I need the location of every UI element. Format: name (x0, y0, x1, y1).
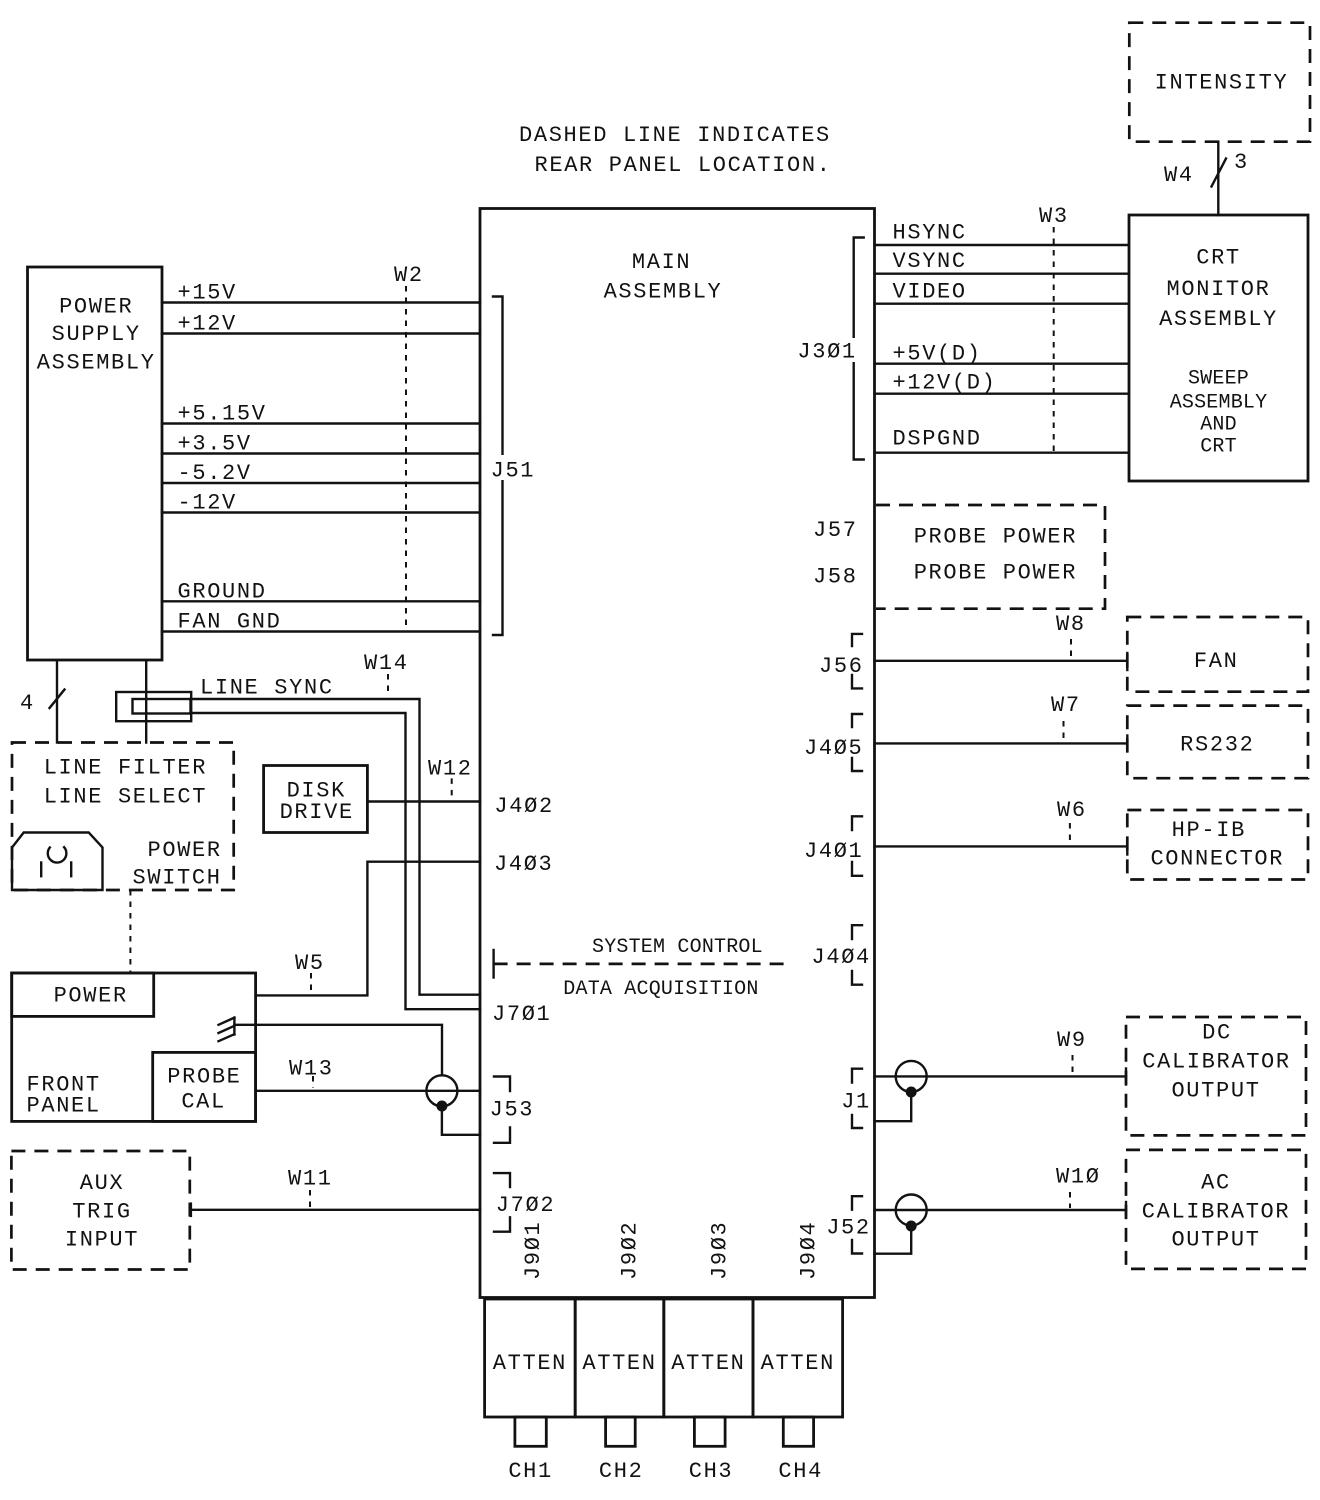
wire W4 intensity to CRT (1164, 142, 1249, 215)
wire: front panel power to J403 (256, 852, 554, 996)
disk drive (264, 766, 368, 833)
svg-text:PROBE POWER: PROBE POWER (914, 561, 1077, 586)
aux trig input (rear panel, dashed) (11, 1151, 189, 1270)
svg-text:DRIVE: DRIVE (280, 800, 354, 825)
svg-text:VIDEO: VIDEO (893, 280, 967, 305)
wire: shield to J53 connector (234, 1025, 442, 1076)
wire line sync bottom: to J701 (191, 713, 481, 1009)
connector J404 (812, 925, 871, 985)
svg-text:HSYNC: HSYNC (893, 221, 967, 246)
svg-text:W12: W12 (428, 757, 473, 782)
svg-text:CH1: CH1 (508, 1459, 553, 1484)
svg-text:AC: AC (1201, 1171, 1231, 1196)
svg-text:CH4: CH4 (778, 1459, 823, 1484)
svg-text:REAR PANEL LOCATION.: REAR PANEL LOCATION. (535, 153, 832, 178)
wire W9: J1 to dc calibrator (875, 1028, 1127, 1085)
wire FAN GND (162, 610, 480, 635)
connector J902 label (618, 1221, 643, 1280)
svg-text:W7: W7 (1051, 693, 1081, 718)
probe power J57/J58 (rear panel, dashed) (813, 505, 1105, 609)
wire +12V (162, 312, 480, 337)
svg-text:4: 4 (20, 691, 35, 716)
svg-text:J9Ø2: J9Ø2 (618, 1221, 643, 1280)
power supply assembly A2 (28, 267, 163, 660)
wire +12V(D) (875, 371, 1130, 396)
svg-text:SWITCH: SWITCH (133, 866, 222, 891)
wire W8: J56 to fan (875, 612, 1128, 670)
svg-text:+12V(D): +12V(D) (893, 371, 997, 396)
label J701 (492, 1002, 551, 1027)
fan (rear panel, dashed) (1127, 617, 1308, 692)
svg-text:OUTPUT: OUTPUT (1171, 1228, 1260, 1253)
svg-text:+5.15V: +5.15V (178, 402, 267, 427)
wire: power supply to line sync pickup (145, 661, 147, 743)
svg-text:+3.5V: +3.5V (178, 432, 252, 457)
connector J53 bracket (490, 1077, 535, 1143)
svg-text:W8: W8 (1056, 612, 1086, 637)
intensity (rear panel, dashed) (1129, 23, 1310, 142)
svg-text:J53: J53 (490, 1098, 535, 1123)
svg-text:J4Ø5: J4Ø5 (804, 736, 863, 761)
svg-text:PROBE POWER: PROBE POWER (914, 525, 1077, 550)
main assembly A1 (480, 209, 875, 1298)
svg-text:OUTPUT: OUTPUT (1171, 1079, 1260, 1104)
svg-text:CALIBRATOR: CALIBRATOR (1142, 1200, 1291, 1225)
dashed link: power switch to front panel power (129, 890, 131, 973)
svg-text:CALIBRATOR: CALIBRATOR (1142, 1050, 1291, 1075)
wire HSYNC (875, 221, 1130, 246)
svg-text:J4Ø4: J4Ø4 (812, 945, 871, 970)
svg-text:CRT: CRT (1200, 436, 1237, 459)
front panel assembly (12, 973, 256, 1121)
attenuator CH2 (575, 1299, 664, 1484)
svg-text:J58: J58 (813, 565, 858, 590)
rs232 (rear panel, dashed) (1127, 706, 1308, 779)
svg-text:VSYNC: VSYNC (893, 249, 967, 274)
svg-text:DASHED LINE INDICATES: DASHED LINE INDICATES (519, 123, 831, 148)
svg-text:W13: W13 (289, 1057, 334, 1082)
svg-text:3: 3 (1234, 150, 1249, 175)
svg-text:SWEEP: SWEEP (1188, 367, 1249, 390)
svg-text:ASSEMBLY: ASSEMBLY (1170, 391, 1268, 414)
connector J52 (coax) (875, 1195, 927, 1254)
CRT monitor assembly (1129, 215, 1308, 481)
svg-text:J9Ø3: J9Ø3 (708, 1221, 733, 1280)
wire +5.15V (162, 402, 480, 427)
svg-text:FAN GND: FAN GND (178, 610, 282, 635)
svg-text:ATTEN: ATTEN (671, 1351, 745, 1376)
svg-text:POWER: POWER (148, 838, 222, 863)
svg-text:J57: J57 (813, 518, 858, 543)
svg-text:ATTEN: ATTEN (761, 1351, 835, 1376)
connector J903 label (708, 1221, 733, 1280)
svg-text:J1: J1 (841, 1090, 871, 1115)
wire DSPGND (875, 427, 1130, 453)
svg-text:DSPGND: DSPGND (893, 427, 982, 452)
cable W14 (dashed) (364, 651, 409, 696)
svg-text:LINE SYNC: LINE SYNC (200, 676, 334, 701)
svg-text:+15V: +15V (178, 281, 237, 306)
svg-text:GROUND: GROUND (178, 579, 267, 604)
system control / data acquisition divider (494, 936, 786, 1001)
line sync pickup loop (116, 676, 333, 722)
svg-text:CONNECTOR: CONNECTOR (1150, 847, 1284, 872)
wire GROUND (162, 579, 480, 604)
svg-text:PROBE: PROBE (167, 1065, 241, 1090)
svg-text:TRIG: TRIG (72, 1199, 131, 1224)
svg-text:AUX: AUX (80, 1171, 125, 1196)
wire -12V (162, 491, 480, 516)
svg-text:J4Ø1: J4Ø1 (804, 839, 863, 864)
wire W6: J401 to hp-ib (875, 798, 1128, 855)
svg-text:W6: W6 (1057, 798, 1087, 823)
svg-text:J3Ø1: J3Ø1 (797, 340, 856, 365)
svg-text:W11: W11 (288, 1166, 333, 1191)
cable W3 (dashed) (1039, 204, 1069, 451)
svg-text:-5.2V: -5.2V (178, 461, 252, 486)
cable W2 (dashed) (394, 263, 424, 630)
svg-text:LINE SELECT: LINE SELECT (44, 785, 207, 810)
connector J52 bracket (826, 1196, 871, 1253)
connector J1 (coax) (875, 1061, 927, 1121)
wire W10: J52 to ac calibrator (875, 1165, 1127, 1219)
svg-text:CH3: CH3 (689, 1459, 734, 1484)
svg-text:W3: W3 (1039, 204, 1069, 229)
svg-text:W14: W14 (364, 651, 409, 676)
wire VSYNC (875, 249, 1130, 274)
connector J401 (804, 816, 863, 876)
svg-text:AND: AND (1200, 413, 1237, 436)
connector J405 (804, 714, 863, 771)
connector J702 bracket (494, 1173, 555, 1232)
svg-text:J4Ø3: J4Ø3 (494, 852, 553, 877)
wire +15V (162, 281, 480, 306)
svg-text:SYSTEM CONTROL: SYSTEM CONTROL (592, 936, 763, 959)
dc calibrator output (rear panel, dashed) (1126, 1017, 1306, 1135)
connector J901 label (521, 1221, 546, 1280)
svg-text:+5V(D): +5V(D) (893, 342, 982, 367)
connector J53 (coax) (426, 1075, 480, 1135)
svg-text:RS232: RS232 (1180, 732, 1254, 757)
svg-text:W1Ø: W1Ø (1056, 1165, 1101, 1190)
svg-text:MONITOR: MONITOR (1167, 277, 1271, 302)
ac calibrator output (rear panel, dashed) (1126, 1150, 1306, 1269)
svg-text:DC: DC (1202, 1021, 1232, 1046)
cable W5 (dashed) (295, 951, 325, 994)
svg-text:-12V: -12V (178, 491, 237, 516)
svg-text:POWER: POWER (59, 295, 133, 320)
svg-text:W9: W9 (1057, 1028, 1087, 1053)
svg-text:ASSEMBLY: ASSEMBLY (1159, 307, 1278, 332)
svg-text:W2: W2 (394, 263, 424, 288)
svg-text:J52: J52 (826, 1216, 871, 1241)
svg-text:J9Ø4: J9Ø4 (797, 1221, 822, 1280)
connector J301 bracket (797, 238, 864, 460)
svg-text:W4: W4 (1164, 163, 1194, 188)
svg-text:HP-IB: HP-IB (1172, 818, 1246, 843)
wire W11: aux trig to J702 (191, 1166, 480, 1216)
svg-text:FAN: FAN (1194, 649, 1239, 674)
svg-text:J51: J51 (491, 458, 536, 483)
svg-text:J7Ø2: J7Ø2 (496, 1193, 555, 1218)
svg-text:+12V: +12V (178, 312, 237, 337)
line filter / line select / power switch (rear panel, dashed) (12, 743, 234, 891)
svg-text:SUPPLY: SUPPLY (52, 322, 141, 347)
svg-text:CRT: CRT (1196, 245, 1241, 270)
svg-text:INPUT: INPUT (65, 1228, 139, 1253)
shield termination symbol (219, 1018, 235, 1042)
wire line sync top: to main box at 994.7 (191, 699, 481, 995)
svg-text:ASSEMBLY: ASSEMBLY (604, 279, 723, 304)
connector J51 bracket (485, 297, 537, 636)
svg-text:ATTEN: ATTEN (493, 1351, 567, 1376)
wire +3.5V (162, 432, 480, 457)
svg-text:J56: J56 (819, 654, 864, 679)
svg-text:CAL: CAL (181, 1090, 226, 1115)
wire: disk drive to J402 (367, 794, 553, 819)
svg-text:DATA ACQUISITION: DATA ACQUISITION (563, 978, 758, 1001)
wire +5V(D) (875, 342, 1130, 367)
svg-text:J9Ø1: J9Ø1 (521, 1221, 546, 1280)
svg-text:ATTEN: ATTEN (582, 1351, 656, 1376)
AC power inlet symbol (12, 833, 103, 891)
svg-text:MAIN: MAIN (632, 250, 691, 275)
connector J904 label (797, 1221, 822, 1280)
hp-ib connector (rear panel, dashed) (1127, 810, 1308, 880)
svg-text:INTENSITY: INTENSITY (1155, 70, 1289, 95)
svg-text:ASSEMBLY: ASSEMBLY (37, 351, 156, 376)
svg-text:CH2: CH2 (599, 1459, 644, 1484)
wire -5.2V (162, 461, 480, 486)
wire VIDEO (875, 280, 1130, 305)
svg-text:LINE FILTER: LINE FILTER (44, 756, 207, 781)
connector J1 bracket (841, 1069, 871, 1128)
attenuator CH1 (485, 1299, 576, 1484)
cable W12 (dashed) (428, 757, 473, 801)
svg-text:J4Ø2: J4Ø2 (494, 794, 553, 819)
svg-text:PANEL: PANEL (27, 1093, 101, 1118)
wire W7: J405 to rs232 (875, 693, 1128, 752)
note: dashed line indicates rear panel location (519, 123, 832, 178)
connector J56 (819, 634, 864, 689)
wire W13: probe cal to J53 (256, 1057, 480, 1091)
attenuator CH3 (664, 1299, 753, 1484)
attenuator CH4 (753, 1299, 843, 1484)
svg-text:W5: W5 (295, 951, 325, 976)
svg-text:POWER: POWER (54, 984, 128, 1009)
cable 4: power supply to line filter (20, 661, 65, 743)
svg-text:J7Ø1: J7Ø1 (492, 1002, 551, 1027)
